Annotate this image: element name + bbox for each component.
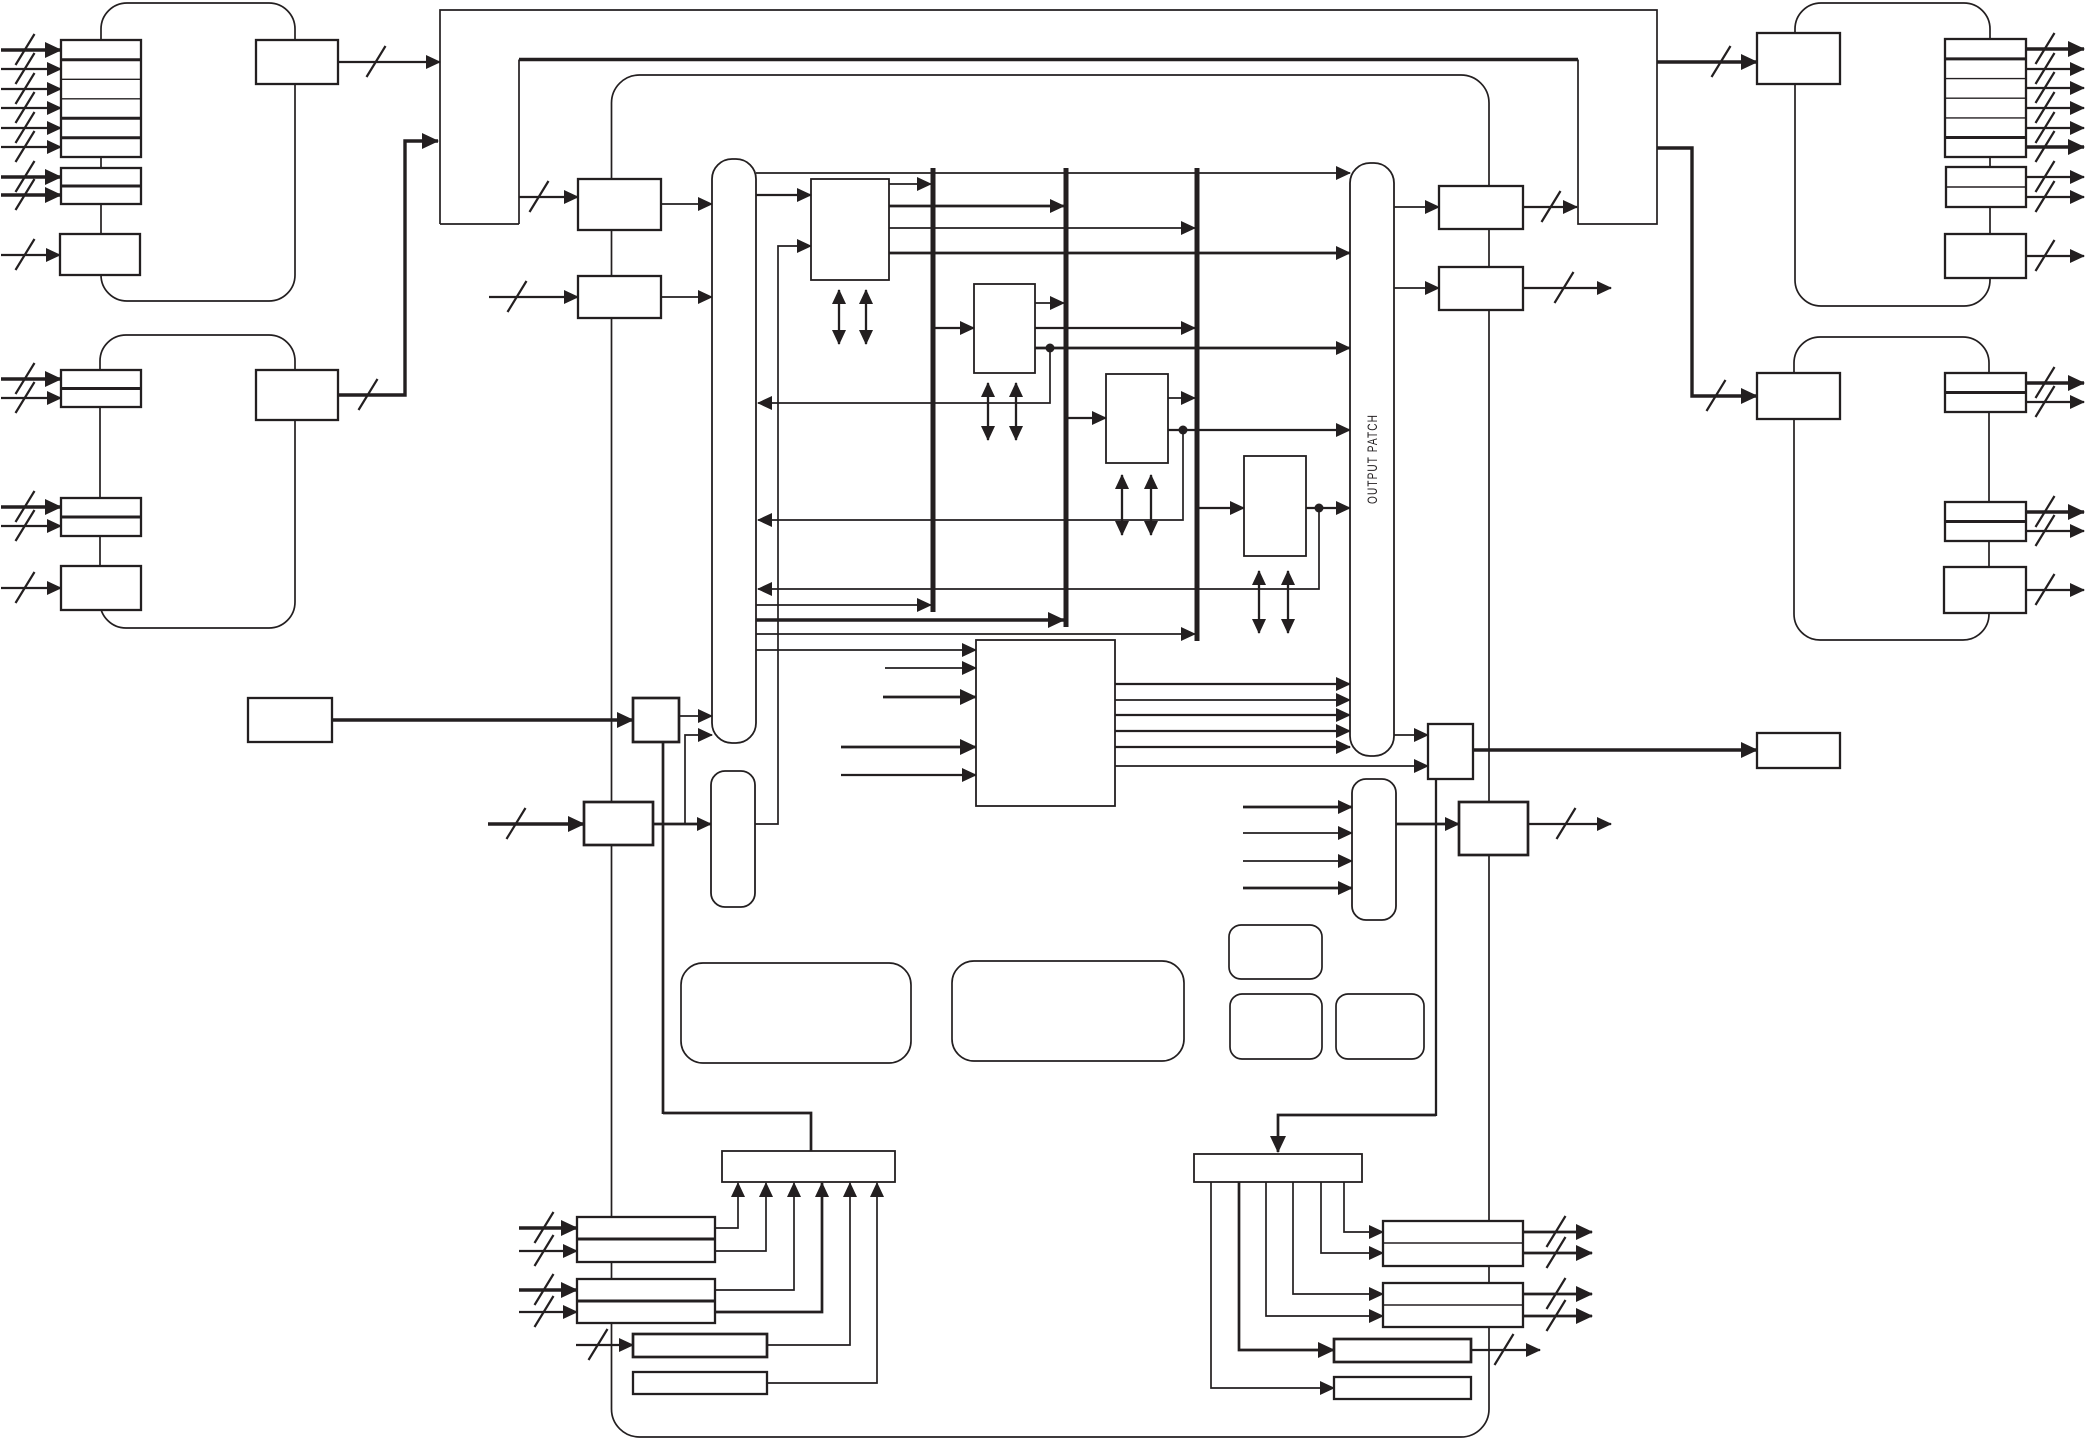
arrow: into M 2 [885, 667, 976, 669]
small box R4 [1230, 994, 1322, 1059]
wire: riser A1 [715, 1183, 738, 1228]
wire: box H up to ring [338, 141, 438, 410]
arrow: S2 to lower input bar [653, 823, 711, 826]
arrow: input 13 [1, 510, 61, 541]
bottom-right distribution bar [1194, 1154, 1362, 1182]
input jack pair B [61, 168, 141, 204]
lower output selector bar [1352, 779, 1396, 920]
arrow: box 1 to input patch [661, 203, 712, 205]
wire: drop to box G2 [1239, 1182, 1334, 1350]
arrow: into box 2 [489, 281, 578, 312]
arrow: input 8 [1, 179, 61, 210]
arrow: input 7 [1, 161, 61, 192]
arrow: input 14 [1, 572, 61, 603]
arrow: output patch to T2 [1394, 206, 1439, 208]
internal generator box W [248, 698, 332, 742]
wire: P2 out to output patch [1035, 344, 1350, 353]
wire: P2 feedback to input patch [758, 348, 1050, 403]
channel input box 1 [578, 179, 661, 230]
arrow: output 4 [2026, 92, 2084, 123]
arrow: V1 to P2 [933, 327, 974, 329]
arrow: input patch to P1 [756, 194, 811, 196]
arrow: E1 output [1523, 1216, 1592, 1247]
arrow: box D to ring [338, 46, 440, 77]
arrow: input 3 [1, 73, 61, 104]
wire: P2 out to bus V3 [1035, 327, 1195, 329]
wire: riser B2 [715, 1183, 822, 1312]
input jack pair F [61, 498, 141, 536]
output jack box RB3 [1944, 567, 2026, 613]
arrow: input 5 [1, 112, 61, 143]
phones box [1757, 733, 1840, 768]
wire: P3 out to bus V3 [1168, 397, 1195, 399]
input jack pair E [61, 370, 141, 407]
processing block P4 [1244, 456, 1306, 556]
processing block P1 [811, 179, 889, 280]
wire: bottom-right bus elbow [1278, 1115, 1436, 1152]
AD converter box H [256, 370, 338, 420]
arrow: box J to phones box [1473, 748, 1757, 751]
wire: drop to box E2 [1321, 1182, 1383, 1253]
wire: P1 out to bus V2 [889, 205, 1064, 208]
AD box C2 [633, 1334, 767, 1357]
OUTPUT PATCH bar [1350, 163, 1394, 756]
AD box D2 [633, 1372, 767, 1394]
arrow: output 1 [2026, 33, 2084, 64]
memory box R1 [681, 963, 911, 1063]
wire: input patch to V1 [756, 604, 931, 606]
lower input selector bar [711, 771, 755, 907]
AD converter box D [256, 40, 338, 84]
arrow: into B2 [519, 1296, 577, 1327]
arrow: output 8 [2026, 181, 2084, 212]
arrow: output 10 [2026, 367, 2084, 398]
wire: M out 5 [1115, 746, 1350, 748]
container: mid-left input unit [100, 335, 295, 628]
bus V2 [1064, 168, 1069, 627]
AD pair box A [577, 1217, 715, 1262]
arrow: output 6 [2026, 131, 2084, 162]
arrow: into A2 [519, 1235, 577, 1266]
arrow: output 14 [2026, 574, 2084, 605]
arrow: box K output [1528, 808, 1611, 839]
wire: riser D [767, 1183, 877, 1383]
arrow: input 2 [1, 53, 61, 84]
wire: M out 3 [1115, 714, 1350, 716]
insert arrows P3 [1122, 475, 1151, 535]
arrow: input 12 [1, 491, 61, 522]
wire: M out 6 to box J [1115, 765, 1428, 767]
bus V1 [931, 168, 936, 612]
DA box U1 [1757, 373, 1840, 419]
arrow: input 9 [1, 239, 60, 270]
arrow: S1 to input patch [679, 715, 712, 717]
effects box S2 [584, 802, 653, 845]
arrow: output 3 [2026, 72, 2084, 103]
arrow: output 7 [2026, 161, 2084, 192]
arrow: output patch to T3 [1394, 287, 1439, 289]
wire: P3 out to output patch [1168, 426, 1350, 435]
input jack box C [60, 234, 140, 275]
ST-in box S1 [633, 698, 679, 742]
main mixer block [612, 75, 1490, 1437]
container: bottom-right output unit [1794, 337, 1989, 640]
output jack box RA3 [1945, 234, 2026, 278]
processing block P2 [974, 284, 1035, 373]
arrow: lower output bar to box K [1396, 823, 1459, 826]
insert arrows P1 [839, 290, 866, 344]
wire: M out 4 [1115, 730, 1350, 732]
wire: top cascade bold bus [519, 58, 1578, 61]
output jack stack RA [1945, 39, 2026, 157]
DA box T2 [1439, 186, 1523, 229]
wire: input patch to V3 [756, 633, 1195, 635]
arrow: box 2 to input patch [661, 296, 712, 298]
container: top-left input unit [101, 3, 295, 301]
DA pair box E [1383, 1221, 1523, 1266]
output jack pair RA2 [1946, 167, 2026, 207]
wire: P2 out to bus V2 [1035, 302, 1064, 304]
arrow: input 4 [1, 92, 61, 123]
arrow: into S2 [488, 808, 584, 839]
mix matrix box M [976, 640, 1115, 806]
arrow: input 6 [1, 131, 61, 162]
wire: P1 out to bus V1 [889, 183, 931, 185]
bus V3 [1195, 168, 1200, 641]
wire: lower bar feedback up to P1 [755, 246, 811, 824]
wire: riser B1 [715, 1183, 794, 1290]
input jack box G [61, 566, 141, 610]
wire: S2 branch up to input patch [685, 735, 712, 824]
wire: riser A2 [715, 1183, 766, 1251]
DA box T1 [1757, 33, 1840, 84]
arrow: into lower output bar 1 [1243, 806, 1352, 809]
memory box R2 [952, 961, 1184, 1061]
arrow: input 10 [1, 363, 61, 394]
wire: drop to box F1 [1293, 1182, 1383, 1294]
arrow: T3 output [1523, 272, 1611, 303]
arrow: output patch to box J [1394, 734, 1428, 736]
wire: M out 1 [1115, 683, 1350, 685]
arrow: box W to S1 [332, 718, 633, 721]
arrow: E2 output [1523, 1237, 1592, 1268]
arrow: into M 3 [883, 696, 976, 699]
insert arrows P4 [1259, 571, 1288, 633]
wire: box J drop to bottom [1435, 779, 1437, 1116]
DA box T3 [1439, 267, 1523, 310]
container: top-right output unit [1795, 3, 1990, 306]
DA box G2 [1334, 1339, 1471, 1362]
arrow: output 5 [2026, 112, 2084, 143]
arrow: into M 4 [841, 746, 976, 749]
arrow: F2 output [1523, 1300, 1592, 1331]
input jack stack A [61, 40, 141, 157]
INPUT PATCH bar [712, 159, 756, 743]
arrow: ring to box T1 [1657, 46, 1757, 77]
output jack pair RB2 [1945, 502, 2026, 541]
DA box H2 [1334, 1377, 1471, 1399]
wire: P3 feedback to input patch [758, 430, 1183, 520]
small box R3 [1229, 925, 1322, 979]
arrow: output 9 [2026, 240, 2084, 271]
arrow: into C2 [576, 1329, 633, 1360]
arrow: output 11 [2026, 386, 2084, 417]
arrow: into lower output bar 3 [1243, 860, 1352, 862]
wire: drop to box H2 [1211, 1182, 1334, 1388]
insert arrows P2 [988, 383, 1016, 440]
arrow: into lower output bar 2 [1243, 832, 1352, 834]
arrow: into M 5 [841, 774, 976, 776]
wire: input patch to output patch direct [756, 172, 1350, 174]
wire: P1 out to output patch [889, 252, 1350, 255]
arrow: into lower output bar 4 [1243, 887, 1352, 890]
wire: top ring outline [440, 10, 1657, 224]
output jack pair RB1 [1945, 373, 2026, 412]
monitor box J [1428, 724, 1473, 779]
wire: S1 drop to bottom bus [662, 742, 665, 1114]
wire: P1 out to bus V3 [889, 227, 1195, 229]
wire: P4 out to output patch [1306, 504, 1350, 513]
wire: bottom-left bus elbow [663, 1113, 811, 1151]
wire: drop to box F2 [1266, 1182, 1383, 1316]
arrow: G2 output [1471, 1334, 1540, 1365]
svg-text:OUTPUT PATCH: OUTPUT PATCH [1365, 414, 1380, 504]
wire: ring branch to box U1 [1657, 148, 1757, 411]
arrow: F1 output [1523, 1278, 1592, 1309]
DA pair box F [1383, 1283, 1523, 1327]
wire: M out 2 [1115, 699, 1350, 701]
arrow: output 13 [2026, 515, 2084, 546]
arrow: V3 to P4 [1197, 507, 1244, 509]
AD pair box B [577, 1279, 715, 1323]
arrow: into B1 [519, 1274, 577, 1305]
arrow: ring to box 1 [519, 181, 578, 212]
small box R5 [1336, 994, 1424, 1059]
bottom-left distribution bar [722, 1151, 895, 1182]
arrow: T2 output to ring [1523, 191, 1577, 222]
wire: input patch to V2 [756, 618, 1064, 621]
wire: riser C [767, 1183, 850, 1345]
processing block P3 [1106, 374, 1168, 463]
channel input box 2 [578, 276, 661, 318]
arrow: output 12 [2026, 496, 2084, 527]
arrow: input 11 [1, 382, 61, 413]
arrow: V2 to P3 [1066, 417, 1106, 419]
DA box K [1459, 802, 1528, 855]
arrow: input 1 [1, 34, 61, 65]
wire: P4 feedback to input patch [758, 508, 1319, 589]
arrow: output 2 [2026, 53, 2084, 84]
wire: input patch to mix box M [756, 649, 976, 651]
arrow: into A1 [519, 1212, 577, 1243]
wire: drop to box E1 [1344, 1182, 1383, 1232]
